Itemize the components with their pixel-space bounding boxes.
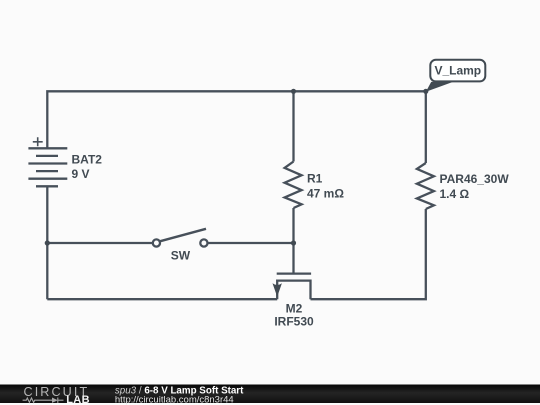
- resistor R1: [285, 162, 302, 209]
- battery BAT2: [28, 137, 67, 186]
- transistor M2: [273, 274, 312, 300]
- lamp PAR46_30W: [417, 163, 434, 209]
- wire lamp top lead: [425, 91, 427, 163]
- junction at top rail / R1: [291, 89, 296, 94]
- wire M2 gate lead: [292, 243, 294, 273]
- switch SW: [153, 229, 208, 247]
- svg-text:SW: SW: [171, 248, 191, 262]
- wire top rail: [47, 91, 426, 148]
- svg-text:9 V: 9 V: [72, 167, 90, 181]
- wire R1 top lead: [292, 91, 294, 161]
- label BAT2 value: [72, 153, 103, 181]
- svg-text:R1: R1: [307, 172, 323, 186]
- footer logo CIRCUIT LAB: [23, 385, 90, 405]
- wire bottom rail left: [47, 298, 277, 300]
- svg-text:M2: M2: [286, 301, 303, 315]
- label M2 IRF530: [274, 301, 314, 328]
- wire switch left: [47, 242, 153, 244]
- wire bottom rail right: [311, 209, 426, 299]
- label R1 value: [307, 172, 344, 201]
- label SW: [171, 248, 191, 262]
- junction at flag corner: [423, 89, 428, 94]
- wire R1 bottom lead: [292, 208, 294, 243]
- svg-text:47 mΩ: 47 mΩ: [307, 186, 344, 200]
- junction at battery minus / switch: [45, 240, 50, 245]
- svg-text:PAR46_30W: PAR46_30W: [440, 172, 510, 186]
- svg-text:BAT2: BAT2: [72, 153, 103, 167]
- footer title text: [115, 385, 244, 405]
- svg-text:IRF530: IRF530: [274, 315, 314, 329]
- label PAR46_30W value: [440, 172, 510, 201]
- svg-text:LAB: LAB: [66, 394, 90, 405]
- svg-text:V_Lamp: V_Lamp: [434, 64, 481, 78]
- wire left rail lower: [46, 186, 48, 299]
- junction at switch / R1 / gate: [291, 240, 296, 245]
- svg-text:http://circuitlab.com/c8n3r44: http://circuitlab.com/c8n3r44: [115, 395, 234, 405]
- wire switch right: [208, 242, 294, 244]
- svg-text:1.4 Ω: 1.4 Ω: [440, 187, 470, 201]
- net flag V_Lamp: [426, 60, 485, 92]
- footer bar: [0, 385, 540, 404]
